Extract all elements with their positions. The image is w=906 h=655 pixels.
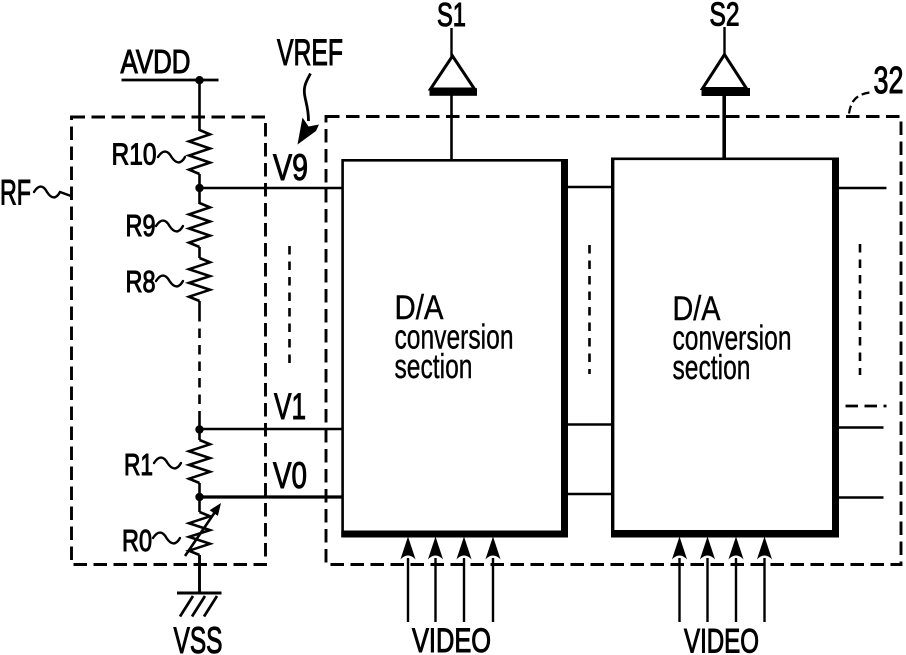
leader line for 32	[849, 93, 870, 114]
wire U1 to U2 row V1	[568, 423, 612, 426]
resistor R10	[189, 130, 210, 174]
buffer amplifier triangle S1	[430, 56, 478, 96]
wire S2 to buffer	[723, 27, 725, 56]
D/A conversion section block U2	[611, 158, 839, 538]
resistor R8	[189, 258, 210, 301]
VIDEO input arrows U2	[672, 537, 772, 623]
node V9 tap	[195, 184, 203, 192]
svg-text:R0: R0	[122, 523, 152, 558]
leader squiggle R0	[153, 533, 180, 544]
ellipsis dashes (omitted taps, middle)	[588, 245, 591, 374]
wire U2 right stub row V0	[839, 496, 884, 499]
wire AVDD to R10	[198, 80, 201, 131]
ground symbol	[177, 593, 222, 617]
leader squiggle R9	[156, 221, 183, 232]
wire R9 to R8	[198, 247, 201, 258]
wire R0 to ground	[198, 555, 201, 593]
wire U1 to U2 row V0	[568, 493, 612, 496]
wire buffer S2 output to U2	[722, 96, 726, 158]
leader squiggle RF	[34, 187, 70, 198]
node V0 tap	[195, 493, 203, 501]
wire AVDD rail	[122, 79, 219, 82]
svg-text:R1: R1	[124, 447, 153, 482]
node AVDD tap	[195, 76, 203, 84]
svg-text:section: section	[395, 348, 473, 386]
wire below R8 (solid)	[198, 301, 201, 312]
node V1 tap	[195, 425, 203, 433]
buffer amplifier triangle S2	[702, 55, 751, 97]
wire U1 to U2 row V9	[568, 186, 612, 189]
resistor R0 (variable)	[189, 512, 210, 555]
leader squiggle R10	[158, 152, 185, 163]
svg-text:R8: R8	[126, 264, 156, 299]
wire ladder continuation (dashed, omitted resistors)	[198, 312, 201, 417]
label U2 text D/A conversion section	[673, 290, 792, 387]
leader arrow VREF	[298, 74, 320, 145]
wire buffer S1 output to U1	[450, 95, 453, 160]
wire V0	[200, 495, 343, 498]
dashed box RF (resistor ladder group)	[72, 117, 266, 565]
svg-text:AVDD: AVDD	[121, 43, 191, 80]
arrow of variable resistor R0	[185, 512, 215, 556]
svg-text:VSS: VSS	[174, 620, 223, 655]
wire into V1 node	[198, 417, 201, 440]
wire U2 right stub row V1	[839, 426, 884, 429]
wire R10 to R9	[198, 174, 201, 204]
wire U2 right stub row V9	[839, 187, 887, 190]
wire V9	[200, 187, 343, 190]
svg-text:R9: R9	[126, 208, 156, 243]
svg-text:V1: V1	[274, 386, 306, 427]
svg-text:RF: RF	[0, 174, 31, 213]
svg-text:section: section	[673, 349, 751, 387]
svg-text:R10: R10	[112, 137, 157, 172]
dashed continuation stub right	[846, 405, 887, 408]
svg-text:V9: V9	[273, 147, 308, 188]
D/A conversion section block U1	[341, 159, 568, 538]
ellipsis dashes (omitted taps, left)	[288, 246, 291, 368]
wire S1 to buffer	[450, 28, 452, 57]
leader squiggle R1	[154, 458, 181, 469]
svg-text:VIDEO: VIDEO	[412, 622, 491, 655]
wire R1 to R0	[198, 483, 201, 512]
svg-text:V0: V0	[273, 455, 307, 496]
resistor R9	[189, 203, 210, 247]
label U1 text D/A conversion section	[395, 289, 514, 386]
svg-text:VIDEO: VIDEO	[684, 623, 759, 655]
resistor R1	[189, 440, 210, 483]
VIDEO input arrows U1	[400, 537, 500, 623]
svg-text:32: 32	[874, 60, 904, 102]
wire V1	[200, 428, 343, 431]
leader squiggle R8	[156, 276, 183, 287]
dashed box 32 (D/A converter group)	[326, 117, 901, 565]
ellipsis dashes (omitted taps, right)	[859, 244, 862, 375]
svg-text:VREF: VREF	[277, 32, 343, 73]
